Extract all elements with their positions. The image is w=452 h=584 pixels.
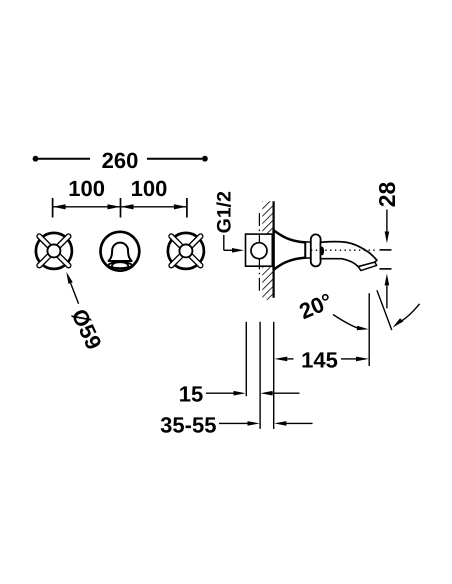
dim 260 line [38, 158, 202, 160]
wall ref line 3 [273, 322, 275, 429]
spout front view [101, 232, 140, 271]
dim 100 arrowheads [53, 204, 187, 209]
leader arrow Ø59 [66, 272, 78, 304]
valve body square [246, 234, 273, 266]
dim 145 [274, 357, 369, 362]
svg-text:15: 15 [179, 382, 203, 407]
angle leader arc left [333, 315, 369, 331]
svg-text:28: 28 [374, 182, 400, 208]
spout stub ellipse [320, 247, 324, 256]
dim 100 ticks [53, 198, 187, 218]
valve body centerline [258, 213, 260, 292]
svg-text:260: 260 [102, 148, 139, 173]
spout mouth [358, 262, 376, 271]
spout flare (trumpet) [274, 230, 306, 269]
svg-text:145: 145 [301, 348, 338, 373]
dim 28 upper [380, 210, 392, 250]
valve body circle [251, 243, 267, 259]
dim 260 end dots [33, 156, 39, 162]
svg-text:35-55: 35-55 [160, 413, 216, 438]
dim 15 [206, 391, 300, 396]
wall ref line 2 [259, 322, 261, 429]
dim 35-55 [219, 421, 313, 426]
wall hatching [262, 201, 273, 300]
spout tube [321, 242, 377, 267]
svg-text:100: 100 [68, 176, 105, 201]
leader arrow G1/2 [224, 235, 244, 253]
svg-text:100: 100 [131, 176, 168, 201]
wall ref line 1 [245, 322, 247, 396]
dim 28 lower [380, 269, 392, 308]
dim 100 line [53, 206, 187, 208]
handle right (cross handle) [168, 233, 204, 269]
spout neck step [306, 242, 311, 258]
svg-text:G1/2: G1/2 [214, 191, 236, 233]
handle left (cross handle) [36, 233, 72, 269]
angle slanted ray [377, 290, 392, 330]
angle vertical ray [368, 293, 370, 366]
wall face line [273, 201, 275, 297]
spout collar capsule [311, 234, 321, 266]
spout dotted centerline [312, 249, 376, 251]
angle arc right [393, 304, 420, 328]
